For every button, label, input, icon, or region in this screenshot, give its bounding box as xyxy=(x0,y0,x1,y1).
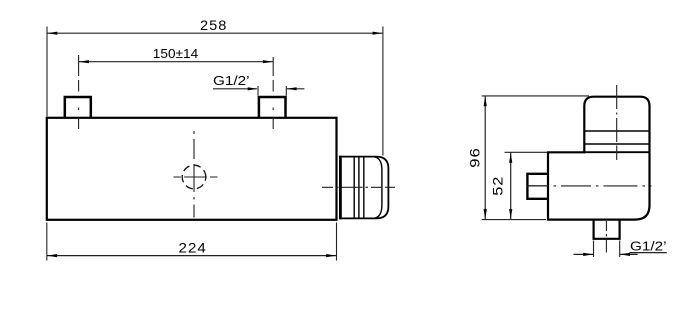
svg-text:G1/2’: G1/2’ xyxy=(630,239,667,254)
side view silhouette (body + top knob) xyxy=(548,97,650,220)
wall connector mid line xyxy=(527,185,548,187)
dimension G1/2 (bottom): left arrow xyxy=(574,253,594,255)
svg-text:224: 224 xyxy=(179,239,207,255)
dimension 224: arrowhead right xyxy=(326,254,336,257)
dimension 52: arrowhead bottom xyxy=(509,209,512,219)
dimension G1/2 (front): extension line right xyxy=(285,86,287,96)
center line: knob axis horizontal xyxy=(322,186,395,188)
dimension G1/2 (bottom): right arrow with leader xyxy=(620,253,638,255)
dimension 150±14: arrowhead right xyxy=(263,60,273,63)
svg-text:52: 52 xyxy=(490,176,506,196)
knob ring line lower xyxy=(584,143,649,145)
dimension G1/2 (front): opposing arrow xyxy=(287,88,305,90)
center line: right connector axis xyxy=(272,57,274,130)
dimension 52: extension line top xyxy=(505,151,548,153)
svg-text:G1/2’: G1/2’ xyxy=(213,73,250,88)
dimension 258: extension line right xyxy=(382,27,384,156)
dimension 96/52: extension line bottom xyxy=(482,219,546,221)
knob (right-end cartridge, front view) xyxy=(340,156,388,220)
svg-text:150±14: 150±14 xyxy=(153,46,198,61)
dimension 224: arrowhead left xyxy=(47,254,57,257)
dimension G1/2 (front): leader line with arrow xyxy=(213,88,257,90)
dimension 96: arrowhead top xyxy=(484,96,487,106)
dimension 258: arrowhead right xyxy=(373,32,383,35)
dimension 224: extension line right xyxy=(336,223,338,261)
dimension G1/2 (bottom): extension line left xyxy=(593,241,595,258)
dimension 224: extension line left xyxy=(46,223,48,261)
knob ring line upper xyxy=(584,130,649,132)
dimension G1/2 (bottom): extension line right xyxy=(619,241,621,258)
dimension G1/2 (bottom): leader underline xyxy=(629,252,666,254)
dimension 52: arrowhead top xyxy=(509,153,512,163)
dimension 52: dimension line xyxy=(510,152,512,219)
dimension 258: extension line left xyxy=(46,27,48,117)
center line: body axis horizontal (side view) xyxy=(527,185,652,187)
cartridge hole (dashed circle, front view) xyxy=(182,165,206,189)
bottom outlet connector (side view) xyxy=(594,220,620,239)
dimension G1/2 (front): extension line left xyxy=(257,86,259,96)
center line: vertical body axis through hole xyxy=(193,131,195,218)
svg-text:258: 258 xyxy=(200,17,227,33)
center line: left connector axis xyxy=(78,55,80,130)
dimension 150±14: dimension line xyxy=(79,61,274,63)
dimension 258: dimension line xyxy=(47,32,383,34)
knob base line (side view) xyxy=(584,151,649,153)
wall connector (side view, left nut) xyxy=(527,174,548,199)
center line: knob axis vertical (side view) xyxy=(616,85,618,160)
dimension 96: arrowhead bottom xyxy=(484,209,487,219)
center line: horizontal crosshair of hole xyxy=(173,176,217,178)
body (front view main rectangle) xyxy=(47,118,337,220)
center line: outlet connector axis (side view) xyxy=(605,221,607,256)
dimension 96: extension line top xyxy=(482,95,589,97)
dimension 96: dimension line xyxy=(484,96,486,219)
inlet connector right (top square) xyxy=(259,97,286,118)
svg-text:96: 96 xyxy=(467,147,483,168)
dimension 224: dimension line xyxy=(47,255,337,257)
dimension 258: arrowhead left xyxy=(47,32,57,35)
inlet connector left (top square) xyxy=(65,97,91,118)
dimension 150±14: arrowhead left xyxy=(79,60,89,63)
